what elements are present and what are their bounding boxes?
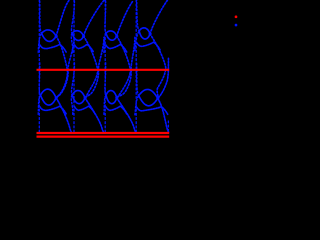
wire X-down p0 r1: [56, 98, 71, 132]
wire L-rise p1 r1: [71, 95, 73, 114]
wire X-up p2 r1: [117, 37, 135, 97]
wire X-up p1 r0: [84, 0, 104, 36]
red hline bottom 1: [37, 132, 170, 134]
wire X-up p3 r1: [158, 57, 168, 98]
wire L-rise p1 r0: [71, 33, 73, 52]
wire X-down p2 r0: [117, 36, 131, 98]
wire X-down p0 r0: [56, 36, 67, 98]
wire lens-lower p1 r1: [72, 95, 85, 104]
wire U-descent p1 r1: [71, 63, 74, 95]
wire L-rise p2 r0: [104, 33, 106, 52]
wire U-descent p1 r0: [71, 1, 74, 33]
wire delta p0 r1: [40, 106, 66, 114]
wire lens-upper p3 r0: [139, 28, 150, 34]
red hline bottom 2: [37, 135, 170, 137]
wire U-descent p0 r1: [39, 63, 40, 95]
wire lens-lower p2 r0: [106, 33, 117, 40]
wire lens-lower p0 r1: [41, 95, 57, 105]
node knot p3 r1: [157, 97, 158, 99]
wire L-rise p0 r1: [38, 95, 41, 114]
node knot p2 r1: [116, 97, 117, 99]
wire lens-lower p2 r1: [106, 95, 117, 104]
wire jump-line x=136.2: [135, 0, 137, 133]
wire X-down p3 r1: [158, 98, 169, 132]
wire jump-line right bot: [167, 121, 169, 133]
wire lens-upper p1 r1: [72, 91, 85, 98]
wire delta p3 r1: [137, 107, 168, 115]
wire X-up p0 r1: [57, 37, 74, 97]
wire L-rise p3 r0: [135, 31, 139, 50]
wire U-descent p2 r0: [105, 1, 106, 33]
node knot p2 r0: [116, 35, 117, 37]
wire X-up p1 r1: [86, 37, 104, 97]
node knot p1 r0: [83, 35, 84, 37]
wire lens-upper p3 r1: [139, 89, 158, 98]
wire delta p3 r0: [137, 42, 160, 50]
wire lens-lower p0 r0: [42, 33, 57, 41]
wire lens-upper p2 r0: [106, 31, 117, 36]
node knot p1 r1: [85, 97, 86, 99]
wire lens-upper p0 r1: [41, 89, 57, 98]
wire L-rise p2 r1: [104, 95, 106, 114]
node knot p3 r0: [150, 33, 151, 35]
wire U-descent p2 r1: [105, 63, 106, 95]
red hline mid: [37, 69, 170, 71]
wire lens-upper p2 r1: [106, 91, 117, 98]
wire U-descent p3 r0: [137, 0, 140, 31]
wire X-down p2 r1: [117, 98, 136, 132]
wire lens-lower p3 r1: [139, 96, 158, 106]
legend marker blue: [235, 24, 238, 27]
wire delta p1 r0: [75, 44, 94, 52]
wire X-down p1 r1: [85, 98, 103, 132]
wire X-up p3 r0: [150, 0, 169, 34]
wire delta p1 r1: [75, 106, 95, 114]
wire lens-lower p3 r0: [139, 31, 150, 39]
wire L-rise p0 r0: [38, 33, 42, 52]
node knot p0 r0: [56, 35, 57, 37]
wire jump-line x=74.0: [73, 0, 75, 133]
node knot p0 r1: [56, 97, 57, 99]
wire delta p2 r1: [106, 106, 127, 114]
wire lens-upper p1 r0: [72, 31, 83, 36]
wire U-descent p0 r0: [40, 1, 42, 33]
wire X-up p2 r0: [117, 0, 134, 36]
wire delta p2 r0: [106, 44, 127, 52]
wire X-down p1 r0: [84, 36, 98, 98]
wire X-up p0 r0: [56, 0, 69, 36]
legend marker red: [235, 16, 238, 19]
wire jump-line x=39.3: [38, 0, 40, 133]
wire X-down p3 r0: [150, 34, 166, 99]
wire L-rise p3 r1: [135, 96, 139, 115]
wire delta p0 r0: [40, 44, 66, 52]
wire lens-upper p0 r0: [42, 30, 57, 36]
wire jump-line x=105.2: [104, 0, 106, 133]
wire lens-lower p1 r0: [72, 33, 83, 40]
wire U-descent p3 r1: [137, 63, 139, 95]
